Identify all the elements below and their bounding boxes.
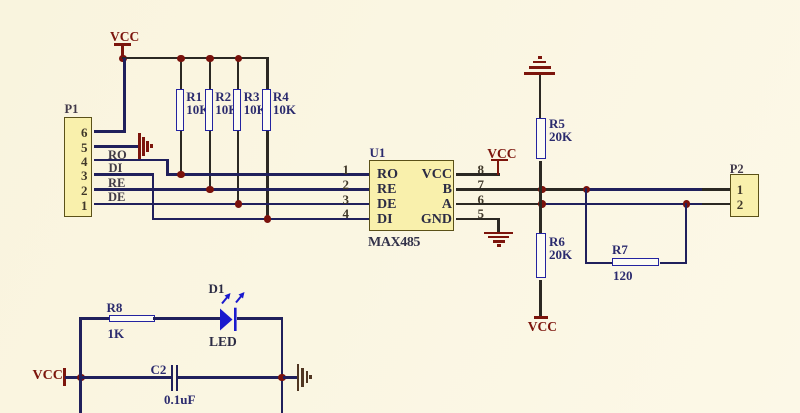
wire U1 pin5 stub bbox=[456, 218, 500, 221]
power symbol VCC (below R6) bbox=[534, 316, 549, 319]
net label RE bbox=[108, 177, 125, 190]
wire to ground right bbox=[283, 376, 297, 379]
node DI-R4 bbox=[264, 215, 272, 223]
node B-R5 bbox=[538, 186, 546, 194]
wire LED to right vertical bbox=[237, 317, 284, 320]
pin number 3 bbox=[343, 193, 350, 206]
wire R8 to LED bbox=[153, 317, 220, 320]
resistor R3 bbox=[233, 89, 241, 131]
wire VCC rail bbox=[122, 57, 269, 60]
wire up to A line bbox=[685, 203, 688, 264]
ground (P1 pin5, sideways) bbox=[138, 133, 140, 160]
wire left vertical bbox=[79, 317, 82, 413]
wire U1 pin7 B line to P2 pin1 bbox=[456, 188, 587, 191]
wire P2 pin2 stub bbox=[702, 203, 730, 206]
node RO-R1 bbox=[177, 171, 185, 179]
ground (above R5, mirrored) bbox=[524, 72, 555, 75]
resistor R6 bbox=[536, 233, 545, 278]
pin number 8 bbox=[478, 163, 485, 176]
node B-R7 bbox=[583, 186, 591, 194]
wire RO line to U1 pin1 bbox=[166, 173, 369, 176]
net label DE bbox=[108, 191, 125, 204]
pin number 6 bbox=[478, 193, 485, 206]
net label DI bbox=[109, 162, 123, 175]
pin number 4 bbox=[343, 207, 350, 220]
resistor R4 bbox=[262, 89, 270, 131]
pin number 2 bbox=[343, 178, 350, 191]
wire C2 row left bbox=[82, 376, 171, 379]
wire top row to R8 bbox=[79, 317, 108, 320]
wire R7 left bbox=[585, 262, 612, 265]
node VCC rail junction bbox=[119, 55, 127, 63]
pin number 7 bbox=[478, 178, 485, 191]
node rail-R2 bbox=[206, 55, 214, 63]
resistor R1 bbox=[176, 89, 184, 131]
pin number 1 bbox=[343, 163, 350, 176]
resistor R8 bbox=[109, 315, 155, 322]
wire R6 to VCC bbox=[539, 280, 542, 318]
wire P1 pin5 to ground bbox=[94, 145, 139, 148]
wire P1 pin4 RO bbox=[94, 159, 169, 162]
node C2-right bbox=[278, 374, 286, 382]
wire DI line to U1 pin4 bbox=[152, 218, 370, 221]
resistor R2 bbox=[205, 89, 213, 131]
wire R1 bottom stem bbox=[180, 131, 183, 176]
connector P1 bbox=[64, 117, 92, 217]
pin number 5 bbox=[478, 207, 485, 220]
ground (bottom right, sideways) bbox=[297, 364, 300, 391]
wire U1 pin6 A line to P2 pin2 bbox=[456, 203, 542, 206]
node rail-R1 bbox=[177, 55, 185, 63]
wire R3 bottom stem bbox=[237, 131, 240, 205]
wire P1 pin3 DI bbox=[94, 173, 155, 176]
node DE-R3 bbox=[235, 200, 243, 208]
node A-R7 bbox=[683, 200, 691, 208]
connector P2 bbox=[730, 174, 759, 218]
resistor R7 bbox=[612, 258, 659, 265]
wire P2 pin1 stub bbox=[702, 188, 730, 191]
wire P1 pin1 DE to U1 pin3 bbox=[94, 203, 370, 206]
node A-R6 bbox=[538, 200, 546, 208]
diode D1 (LED) bbox=[200, 280, 260, 340]
wire right vertical bbox=[281, 317, 284, 413]
wire B line down to R7 bbox=[585, 188, 588, 264]
net label RO bbox=[108, 149, 127, 162]
wire R2 top stem bbox=[209, 58, 212, 90]
node RE-R2 bbox=[206, 186, 214, 194]
wire R4 top stem bbox=[266, 57, 269, 90]
power symbol VCC (top left) bbox=[110, 30, 139, 44]
wire R5 to B line and through to R6 bbox=[539, 161, 542, 233]
resistor R5 bbox=[536, 118, 545, 159]
wire R2 bottom stem bbox=[209, 131, 212, 190]
ground (U1 pin5) bbox=[484, 232, 513, 235]
wire R3 top stem bbox=[237, 58, 240, 90]
wire R1 top stem bbox=[180, 58, 183, 90]
wire P1 pin6 to VCC rail bbox=[94, 130, 126, 133]
wire U1 pin8 stub bbox=[456, 173, 501, 176]
capacitor C2 bbox=[171, 365, 174, 391]
power symbol VCC (U1 pin8) bbox=[487, 147, 516, 161]
op-amp U1 (MAX485 IC) bbox=[369, 160, 454, 231]
wire C2 row right bbox=[178, 376, 282, 379]
wire R4 bottom stem bbox=[266, 131, 269, 220]
node rail-R3 bbox=[235, 55, 243, 63]
wire R7 right bbox=[660, 262, 687, 265]
node VCC-C2 bbox=[77, 374, 85, 382]
wire bottom circuit: VCC to left rail bbox=[33, 369, 63, 383]
wire ground to R5 bbox=[539, 75, 541, 118]
wire P1 pin2 RE to U1 pin2 bbox=[94, 188, 370, 191]
